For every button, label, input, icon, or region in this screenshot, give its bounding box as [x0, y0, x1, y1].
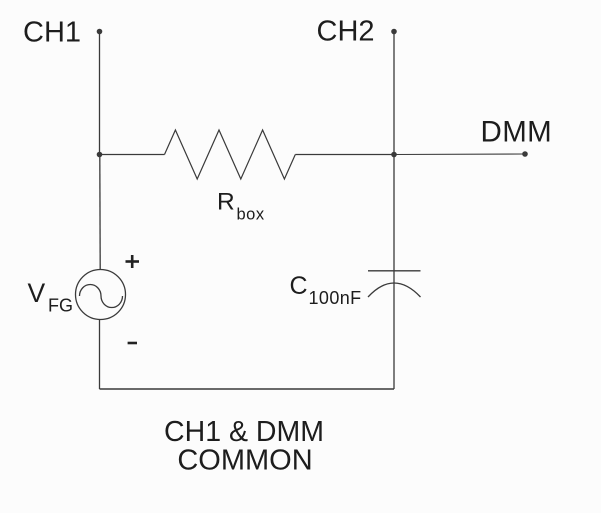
- node DMM terminal dot: [522, 151, 528, 157]
- svg-text:R: R: [217, 189, 235, 216]
- svg-text:CH1 & DMM: CH1 & DMM: [164, 416, 324, 448]
- minus polarity mark: [128, 342, 137, 345]
- svg-text:COMMON: COMMON: [177, 445, 312, 477]
- node CH1 terminal dot: [97, 29, 103, 35]
- svg-text:V: V: [28, 278, 46, 308]
- wire left junction down to VFG: [99, 155, 101, 270]
- wire CH1 down to resistor junction: [99, 32, 101, 155]
- wire junction to resistor: [100, 154, 165, 156]
- junction dot left: [97, 152, 103, 158]
- wire VFG down to bottom rail: [99, 320, 101, 390]
- svg-text:FG: FG: [48, 296, 73, 316]
- voltage source sine wave: [80, 285, 123, 308]
- svg-text:box: box: [237, 206, 265, 224]
- voltage source VFG circle: [76, 270, 126, 320]
- capacitor C 100nF bottom curved plate: [368, 283, 421, 297]
- svg-text:C: C: [290, 272, 308, 300]
- resistor Rbox zigzag: [165, 130, 296, 179]
- node CH2 terminal dot: [391, 29, 397, 35]
- wire capacitor down to bottom rail: [393, 283, 395, 389]
- voltage source label VFG: [28, 278, 74, 316]
- svg-text:DMM: DMM: [481, 116, 553, 149]
- svg-text:CH2: CH2: [317, 16, 375, 48]
- svg-text:CH1: CH1: [23, 17, 81, 49]
- junction dot right: [391, 152, 397, 158]
- wire bottom rail: [100, 388, 395, 390]
- capacitor C 100nF top plate: [368, 270, 421, 272]
- note CH1 & DMM COMMON: [164, 416, 324, 477]
- plus polarity mark: [126, 255, 140, 268]
- wire right junction down to capacitor: [393, 155, 395, 284]
- wire junction to DMM: [394, 153, 525, 156]
- svg-text:100nF: 100nF: [309, 288, 362, 308]
- wire CH2 down to right junction: [393, 32, 395, 155]
- resistor label Rbox: [217, 189, 265, 224]
- capacitor label C100nF: [290, 272, 362, 308]
- wire resistor to right junction: [295, 154, 394, 156]
